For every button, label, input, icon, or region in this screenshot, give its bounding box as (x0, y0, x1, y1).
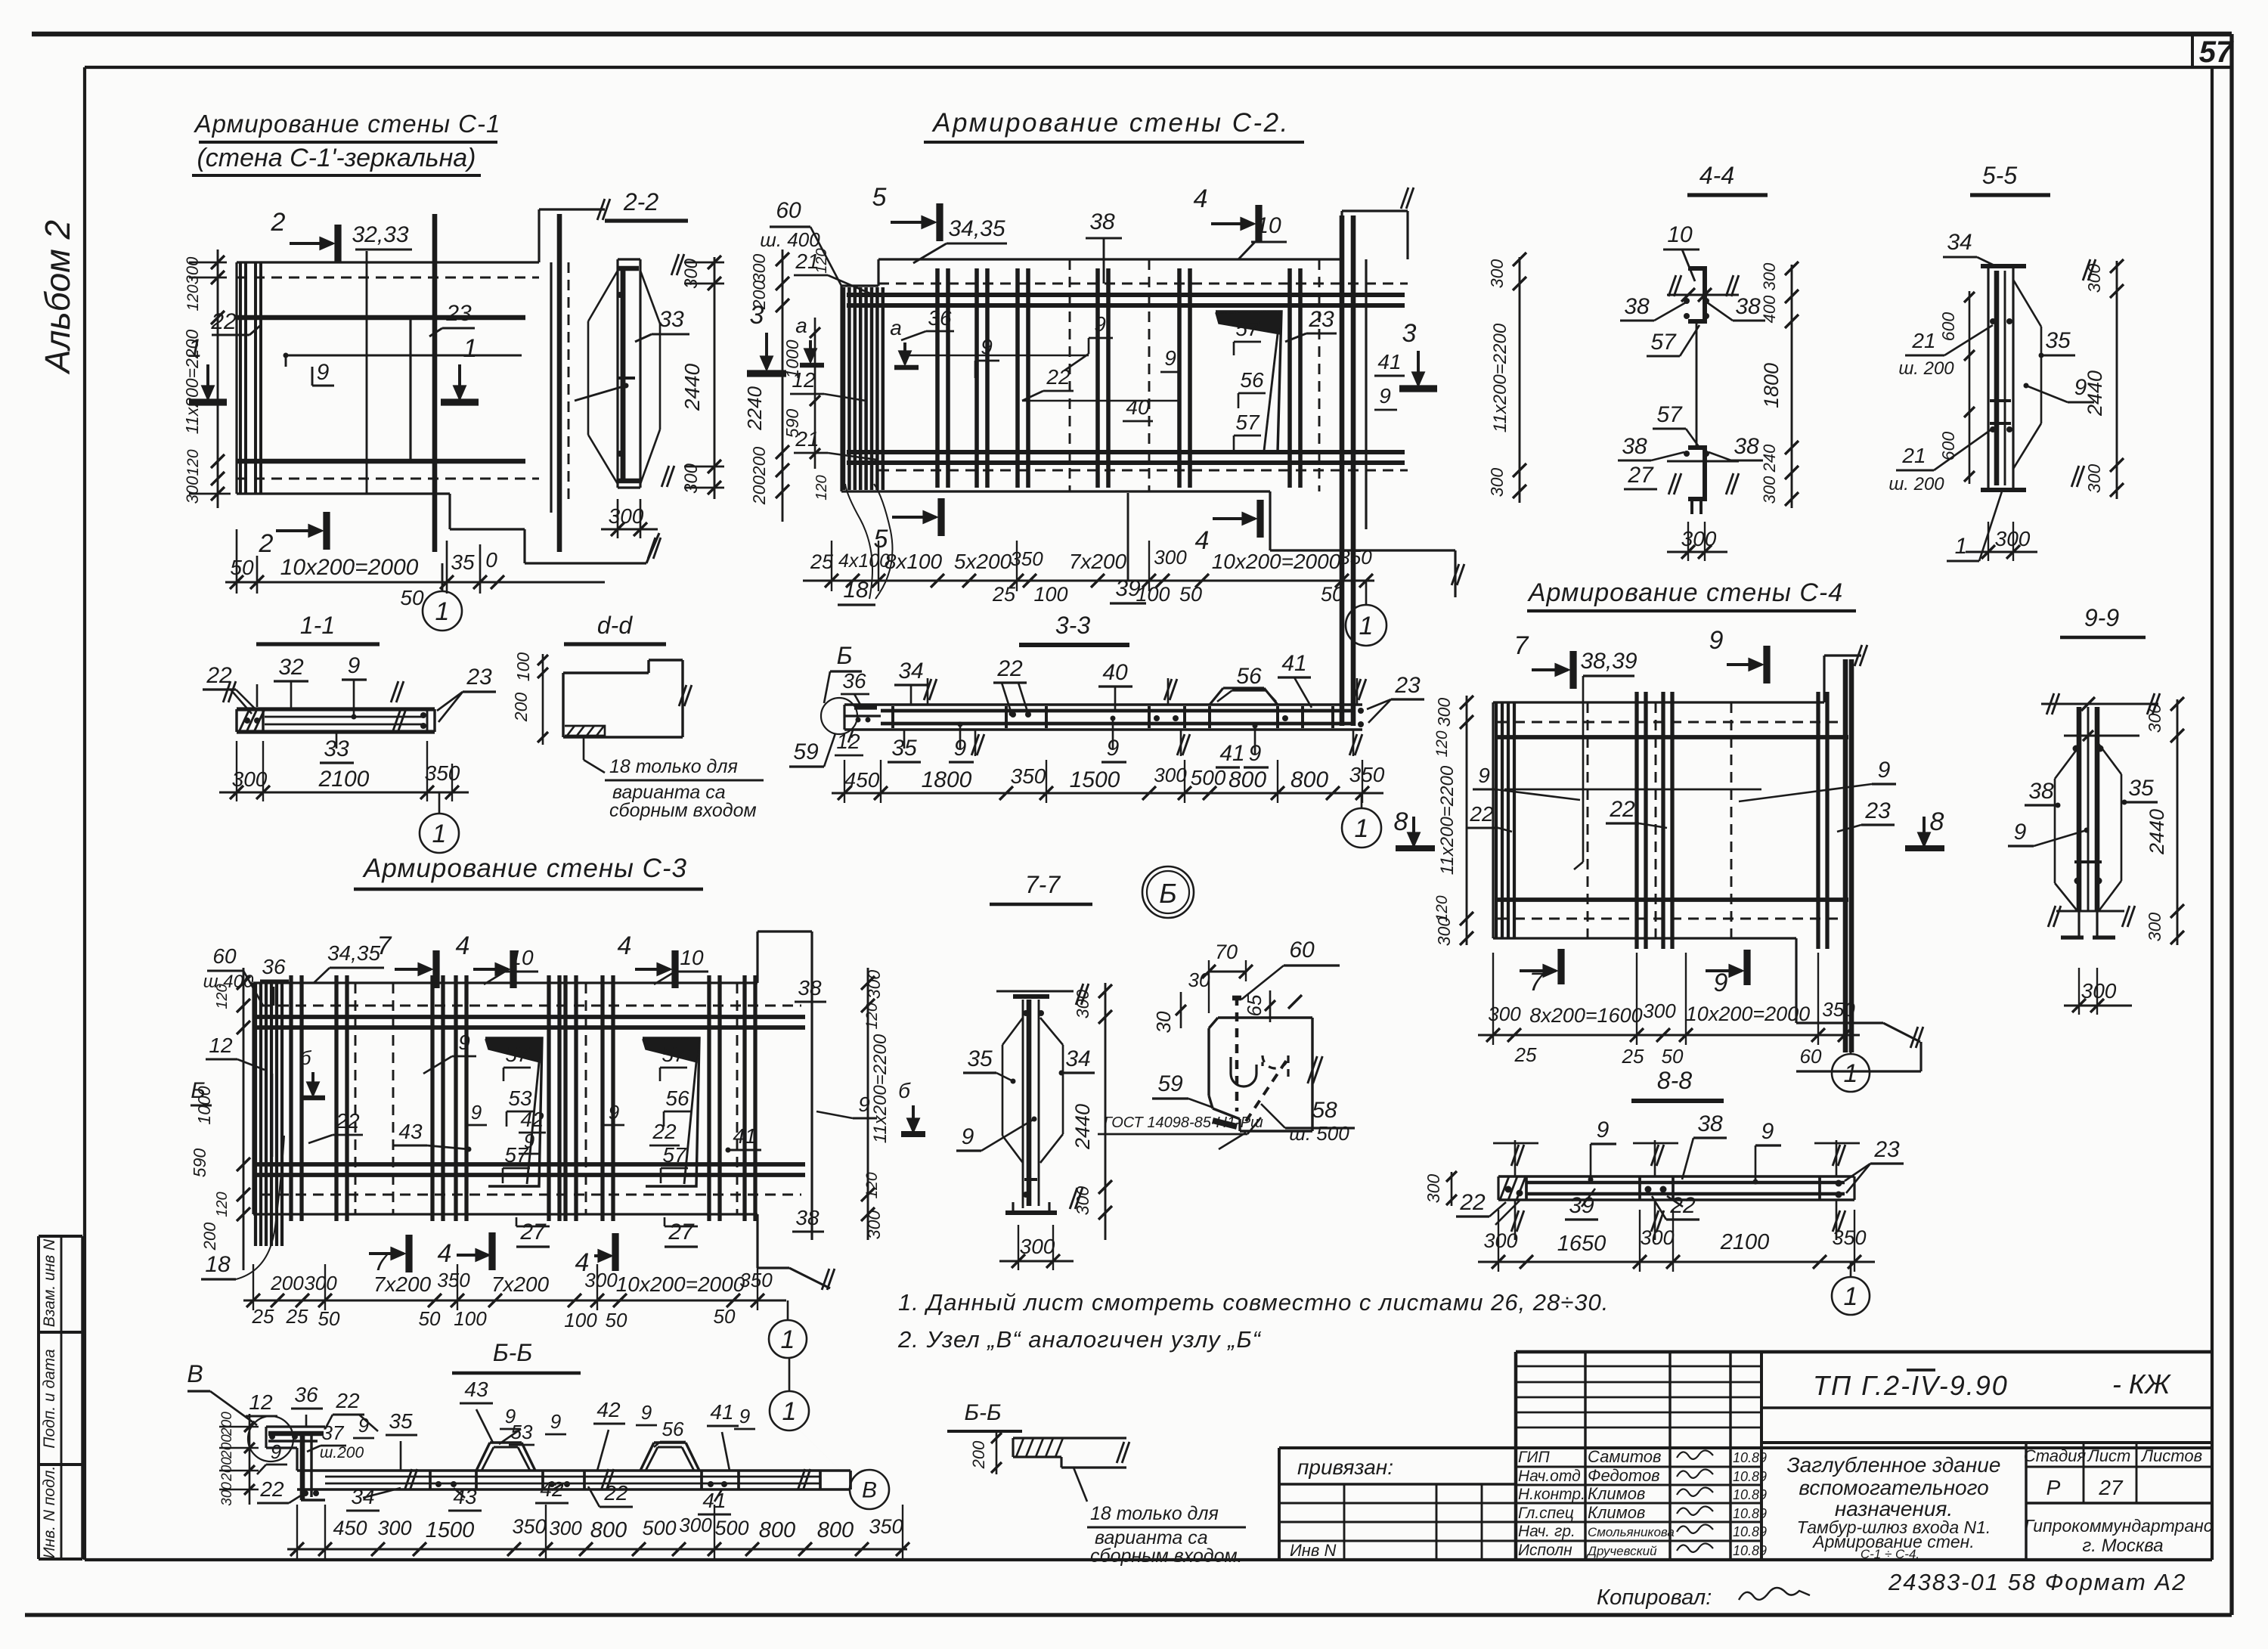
6-6 bottom dimension chain (287, 1548, 907, 1551)
svg-text:65: 65 (1243, 994, 1266, 1016)
svg-text:Н.контр.: Н.контр. (1518, 1486, 1585, 1503)
svg-text:100: 100 (454, 1307, 487, 1330)
wall C-4 right column bars (1843, 659, 1848, 1052)
svg-text:1-1: 1-1 (300, 612, 335, 639)
7-7 right dims (1105, 983, 1107, 1240)
svg-text:Лист: Лист (2087, 1446, 2131, 1465)
svg-text:41: 41 (1377, 350, 1401, 374)
svg-text:2: 2 (271, 208, 286, 237)
svg-text:25: 25 (810, 550, 834, 573)
svg-text:200: 200 (270, 1272, 304, 1294)
svg-text:30: 30 (1188, 969, 1210, 991)
svg-text:22: 22 (996, 656, 1023, 681)
svg-text:ш. 400: ш. 400 (760, 228, 820, 251)
svg-text:8: 8 (1394, 807, 1408, 836)
C-3 opening 2 with wedge (643, 1038, 699, 1186)
3-3 slab section (844, 703, 1362, 705)
svg-text:38,39: 38,39 (1580, 649, 1637, 674)
svg-text:300: 300 (864, 1210, 884, 1240)
svg-text:23: 23 (445, 301, 472, 326)
svg-text:Нач. гр.: Нач. гр. (1518, 1523, 1576, 1540)
svg-text:22: 22 (603, 1481, 628, 1505)
node V circle right (850, 1470, 889, 1509)
svg-text:9: 9 (471, 1101, 482, 1124)
svg-text:50: 50 (1321, 583, 1343, 606)
svg-text:42: 42 (520, 1108, 544, 1131)
node B hooks (1231, 1057, 1256, 1086)
inner frame bottom line (85, 1558, 2212, 1561)
svg-text:18 только для: 18 только для (1090, 1503, 1219, 1524)
d-d left dims 100 200 (542, 654, 544, 745)
axis circle 1 under 1-1 (438, 792, 441, 814)
svg-text:Заглубленное здание: Заглубленное здание (1787, 1453, 2001, 1477)
3-3 bent bar hat 56 (1210, 688, 1223, 705)
svg-text:3: 3 (1402, 319, 1417, 348)
svg-text:1650: 1650 (1557, 1232, 1606, 1256)
svg-text:10.89: 10.89 (1733, 1450, 1767, 1465)
svg-text:350: 350 (739, 1269, 773, 1291)
svg-text:300: 300 (1995, 527, 2031, 550)
svg-text:53: 53 (511, 1421, 533, 1443)
svg-text:12: 12 (209, 1034, 233, 1057)
svg-text:ш.200: ш.200 (320, 1444, 364, 1461)
svg-text:2440: 2440 (1071, 1104, 1094, 1150)
svg-text:2100: 2100 (1720, 1230, 1770, 1254)
8-8 top break ticks (1514, 1140, 1517, 1176)
svg-text:1. Данный лист смотреть совмес: 1. Данный лист смотреть совместно с лист… (898, 1289, 1609, 1316)
svg-text:27: 27 (668, 1220, 695, 1244)
svg-text:0: 0 (485, 548, 497, 572)
small B-B note text (1074, 1468, 1087, 1502)
8-8 slab section (1498, 1175, 1854, 1177)
svg-text:24383-01 58 Формат А2: 24383-01 58 Формат А2 (1888, 1569, 2186, 1595)
1-1 end break marks (393, 709, 401, 730)
svg-text:34: 34 (1065, 1046, 1090, 1071)
4-4 bottom dim 300 (1667, 551, 1727, 553)
outer right border line (2229, 34, 2233, 1615)
svg-text:10x200=2000: 10x200=2000 (616, 1272, 745, 1296)
3-3 stirrup dividers (891, 706, 894, 728)
svg-text:9: 9 (1709, 626, 1724, 655)
C-3 bottom dimension chain (243, 1300, 786, 1302)
svg-text:300: 300 (183, 476, 202, 504)
wall C-3 outline (253, 981, 758, 984)
svg-text:800: 800 (1228, 767, 1266, 792)
d-d note 18 tolko dlya (583, 737, 585, 760)
svg-text:100: 100 (1033, 583, 1067, 606)
title block outer box (1516, 1350, 2212, 1353)
svg-text:35: 35 (389, 1409, 413, 1433)
7-7 wall strip (996, 990, 1074, 993)
7-7 bottom dim 300 (999, 1260, 1074, 1263)
wall C-3 field vertical bars (289, 975, 293, 1221)
9-9 bottom base (2056, 910, 2124, 913)
wall C-2 field vertical bars (935, 268, 940, 488)
svg-text:5x200: 5x200 (954, 550, 1012, 573)
8-8 dimension chain (1478, 1261, 1875, 1263)
svg-text:25: 25 (252, 1305, 274, 1328)
svg-text:9-9: 9-9 (2084, 604, 2119, 631)
5-5 left dim 600 600 (1969, 291, 1971, 484)
svg-text:Климов: Климов (1588, 1503, 1645, 1522)
svg-text:18: 18 (205, 1252, 231, 1277)
1-1 dimension chain (219, 792, 469, 794)
node B dashed anchor bar (1235, 997, 1238, 1111)
svg-text:350: 350 (512, 1515, 546, 1538)
svg-text:7: 7 (377, 931, 392, 960)
svg-text:1: 1 (432, 820, 447, 848)
svg-text:43: 43 (398, 1120, 423, 1143)
svg-text:350: 350 (437, 1269, 470, 1291)
svg-text:38: 38 (1624, 294, 1650, 319)
svg-text:1: 1 (1844, 1059, 1858, 1088)
svg-text:350: 350 (1832, 1226, 1866, 1249)
svg-text:50: 50 (419, 1307, 441, 1330)
svg-text:Армирование стены С-1: Армирование стены С-1 (194, 110, 501, 138)
svg-text:21: 21 (1911, 329, 1935, 352)
svg-text:б: б (898, 1079, 911, 1102)
svg-text:ГИП: ГИП (1518, 1449, 1550, 1466)
node marker circle B (1142, 866, 1194, 918)
svg-text:С-1 ÷ С-4.: С-1 ÷ С-4. (1861, 1547, 1919, 1561)
2-2 vertical dimension 2440 (714, 257, 716, 499)
section 2-2 callout hexagon (588, 271, 618, 321)
svg-text:800: 800 (817, 1518, 854, 1542)
svg-text:100: 100 (564, 1309, 597, 1331)
svg-text:56: 56 (1240, 368, 1264, 392)
wall C-3 left dense vertical bars (254, 983, 257, 1246)
svg-text:41: 41 (1281, 651, 1306, 676)
svg-text:50: 50 (400, 586, 424, 609)
svg-text:1: 1 (1359, 612, 1374, 640)
svg-text:Б-Б: Б-Б (964, 1400, 1001, 1425)
svg-text:25: 25 (992, 583, 1016, 606)
svg-text:42: 42 (596, 1398, 621, 1421)
svg-text:41: 41 (710, 1400, 733, 1424)
svg-text:1500: 1500 (426, 1518, 475, 1542)
4-4 bottom column piece (1688, 448, 1705, 499)
svg-text:2. Узел „В“ аналогичен узлу „Б: 2. Узел „В“ аналогичен узлу „Б“ (897, 1326, 1262, 1353)
svg-text:120: 120 (863, 1172, 881, 1198)
wall C-4 horizontal bars (1495, 735, 1848, 739)
svg-text:300: 300 (549, 1517, 582, 1539)
svg-text:27: 27 (519, 1220, 547, 1244)
svg-text:2440: 2440 (2084, 370, 2106, 417)
svg-text:38: 38 (798, 976, 822, 1000)
svg-text:800: 800 (759, 1518, 795, 1542)
svg-text:50: 50 (318, 1307, 340, 1330)
svg-text:300: 300 (2145, 913, 2164, 942)
svg-text:9: 9 (1878, 758, 1891, 783)
svg-text:56: 56 (1236, 664, 1262, 689)
svg-text:Армирование стены С-3: Армирование стены С-3 (362, 854, 687, 883)
svg-text:7: 7 (1514, 631, 1529, 660)
svg-text:Дручевский: Дручевский (1586, 1544, 1657, 1558)
svg-text:59: 59 (1157, 1071, 1183, 1096)
C-3 right dim chain (867, 968, 869, 1240)
svg-text:34,35: 34,35 (327, 941, 380, 965)
svg-text:10.89: 10.89 (1733, 1506, 1767, 1521)
svg-text:34: 34 (898, 659, 923, 683)
svg-text:60: 60 (1289, 938, 1315, 962)
svg-text:9: 9 (2014, 820, 2027, 845)
privyazan annex table (1278, 1448, 1281, 1560)
svg-text:590: 590 (782, 409, 802, 439)
svg-text:41: 41 (1219, 741, 1244, 766)
svg-text:Нач.отд: Нач.отд (1518, 1468, 1581, 1485)
svg-text:22: 22 (1609, 797, 1635, 822)
inner frame left line (83, 67, 86, 1560)
svg-text:57: 57 (661, 1043, 686, 1066)
svg-text:38: 38 (795, 1206, 820, 1229)
svg-text:В: В (862, 1478, 877, 1503)
svg-text:57: 57 (662, 1143, 687, 1167)
svg-text:38: 38 (1089, 209, 1115, 234)
wall C-4 left vertical bars (1495, 702, 1498, 938)
svg-text:350: 350 (1010, 547, 1043, 570)
svg-text:120: 120 (184, 449, 202, 476)
svg-text:9: 9 (317, 360, 330, 385)
wall C-1 dashed distribution lines (237, 277, 539, 279)
svg-text:Самитов: Самитов (1588, 1447, 1662, 1466)
C-4 bottom dimension chain (1478, 1034, 1860, 1037)
svg-text:38: 38 (1622, 434, 1647, 459)
svg-text:590: 590 (190, 1148, 209, 1178)
svg-text:4: 4 (1195, 526, 1210, 555)
section 2-2 wall strip (618, 258, 640, 260)
svg-text:8x200=1600: 8x200=1600 (1529, 1004, 1642, 1027)
wall C-2 outline (878, 258, 1342, 260)
svg-text:1: 1 (782, 1397, 797, 1426)
svg-text:10.89: 10.89 (1733, 1487, 1767, 1502)
axis circle 1 under 3-3 right (1361, 793, 1363, 807)
svg-text:23: 23 (1394, 673, 1421, 698)
wall C-2 right column bars (1340, 215, 1345, 726)
svg-text:57: 57 (1650, 330, 1677, 355)
svg-text:37: 37 (322, 1421, 345, 1444)
svg-text:100: 100 (1136, 583, 1170, 606)
svg-text:34,35: 34,35 (948, 216, 1005, 241)
svg-text:Взам. инв N: Взам. инв N (41, 1238, 58, 1327)
svg-text:23: 23 (466, 665, 492, 690)
6-6 node V big circle (248, 1416, 293, 1461)
svg-text:11x200=2200: 11x200=2200 (182, 330, 202, 435)
svg-text:40: 40 (1126, 395, 1150, 419)
svg-text:300: 300 (2081, 979, 2117, 1003)
C-3 left dim chains (243, 968, 245, 1270)
svg-text:9: 9 (1094, 312, 1106, 336)
svg-text:800: 800 (590, 1518, 627, 1542)
6-6 break marks (404, 1469, 412, 1490)
svg-text:Б: Б (1159, 878, 1176, 909)
svg-text:8-8: 8-8 (1657, 1067, 1692, 1094)
svg-text:8x100: 8x100 (885, 550, 943, 573)
axis circle 1 under C-4 (1850, 1035, 1852, 1054)
svg-text:200: 200 (749, 476, 769, 506)
svg-text:38: 38 (2028, 779, 2054, 804)
svg-text:ш. 200: ш. 200 (1898, 358, 1954, 379)
svg-text:9: 9 (739, 1405, 750, 1427)
svg-text:Инв. N подл.: Инв. N подл. (41, 1466, 58, 1559)
svg-text:23: 23 (1864, 798, 1891, 823)
svg-text:350: 350 (425, 761, 460, 785)
C-2 bottom dimension chain (803, 580, 1374, 582)
svg-text:4: 4 (1194, 184, 1208, 213)
svg-text:7x200: 7x200 (1069, 550, 1127, 573)
wall C-1 vertical bar 32,33 (366, 251, 368, 494)
6-6 left rotated dims (249, 1414, 251, 1505)
svg-text:а: а (890, 316, 902, 339)
svg-text:1: 1 (1955, 534, 1968, 559)
title block upper thin rows (1516, 1365, 1761, 1368)
svg-text:ТП Г.2-IV-9.90: ТП Г.2-IV-9.90 (1813, 1370, 2009, 1401)
svg-text:300: 300 (584, 1269, 618, 1291)
svg-text:300: 300 (1434, 698, 1454, 727)
svg-text:300: 300 (1434, 917, 1454, 947)
svg-text:57: 57 (1235, 317, 1260, 340)
svg-text:9: 9 (1379, 384, 1391, 408)
svg-text:300: 300 (219, 1482, 235, 1506)
svg-text:10x200=2000: 10x200=2000 (280, 555, 419, 580)
wall C-3 horizontal bars (257, 1015, 805, 1019)
svg-text:2100: 2100 (318, 767, 370, 792)
svg-text:500: 500 (1191, 766, 1226, 789)
svg-text:38: 38 (1697, 1111, 1723, 1136)
svg-text:57: 57 (1656, 402, 1683, 427)
svg-text:сборным входом.: сборным входом. (1090, 1545, 1243, 1567)
svg-text:450: 450 (333, 1517, 367, 1539)
svg-text:9: 9 (271, 1440, 281, 1463)
svg-text:Гл.спец: Гл.спец (1518, 1505, 1574, 1522)
svg-text:10.89: 10.89 (1733, 1524, 1767, 1539)
C-2 left dim chains (782, 250, 784, 522)
svg-text:500: 500 (642, 1517, 676, 1539)
svg-text:3-3: 3-3 (1055, 612, 1090, 639)
svg-text:40: 40 (1102, 660, 1128, 685)
svg-text:21: 21 (1901, 444, 1926, 467)
svg-text:53: 53 (508, 1086, 532, 1110)
svg-text:9: 9 (1761, 1119, 1774, 1144)
svg-text:36: 36 (262, 955, 286, 978)
C-2 right dim chain (1519, 257, 1521, 503)
5-5 right dimension 2440 (2116, 261, 2118, 499)
svg-text:300: 300 (681, 463, 702, 494)
outer bottom border line (25, 1613, 2232, 1616)
svg-text:9: 9 (1597, 1117, 1610, 1142)
svg-text:27: 27 (2098, 1476, 2124, 1499)
svg-text:200: 200 (219, 1434, 235, 1459)
svg-text:Исполн: Исполн (1518, 1542, 1572, 1559)
svg-text:22: 22 (335, 1389, 360, 1412)
svg-text:вспомогательного: вспомогательного (1799, 1476, 1988, 1499)
C-3 opening 1 with wedge (485, 1038, 542, 1186)
wall C-4 field vertical bars (1634, 692, 1638, 949)
small B-B step shape (1013, 1437, 1126, 1439)
svg-text:38: 38 (1734, 434, 1759, 459)
svg-text:Смольяникова: Смольяникова (1588, 1525, 1675, 1539)
5-5 callout hexagon right (2013, 280, 2041, 327)
svg-text:Стадия: Стадия (2024, 1446, 2087, 1465)
svg-text:350: 350 (1349, 763, 1385, 786)
svg-text:300: 300 (1681, 527, 1717, 550)
svg-text:5: 5 (872, 183, 887, 212)
svg-text:2-2: 2-2 (623, 188, 658, 215)
svg-text:60: 60 (1800, 1045, 1822, 1068)
svg-text:36: 36 (928, 306, 952, 330)
svg-text:800: 800 (1290, 767, 1328, 792)
C-4 left dim chain (1466, 696, 1468, 945)
svg-text:ш. 200: ш. 200 (1888, 474, 1944, 494)
TP document number cell (1761, 1406, 2212, 1409)
wall C-1 outline (237, 261, 539, 263)
svg-text:120: 120 (863, 1003, 881, 1029)
svg-text:300: 300 (2145, 704, 2164, 733)
axis circles right of 6-6 (770, 1391, 809, 1430)
svg-text:120: 120 (1433, 730, 1451, 757)
svg-text:4: 4 (618, 931, 632, 960)
svg-text:300: 300 (304, 1272, 337, 1294)
1-1 left corner hatch (239, 709, 249, 732)
small B-B dim 200 (996, 1432, 998, 1474)
node B dims 70 30 30 65 (1209, 971, 1246, 973)
svg-text:300: 300 (1487, 468, 1507, 497)
2-2 bottom dimension 300 (601, 528, 658, 531)
svg-text:d-d: d-d (597, 612, 633, 639)
svg-text:200: 200 (219, 1412, 235, 1437)
staff signature rows (1516, 1466, 1761, 1468)
3-3 node B callout circle (821, 698, 857, 734)
svg-text:36: 36 (842, 669, 866, 693)
6-6 stirrup boxes (429, 1471, 432, 1489)
svg-text:Листов: Листов (2140, 1446, 2202, 1465)
svg-text:10: 10 (1256, 213, 1281, 238)
svg-text:120: 120 (184, 284, 202, 311)
svg-text:9: 9 (962, 1124, 974, 1149)
svg-text:22: 22 (1459, 1190, 1486, 1215)
svg-text:Б: Б (837, 642, 853, 669)
wall C-1 horizontal bars (237, 315, 525, 321)
svg-text:б: б (300, 1046, 312, 1069)
svg-text:1: 1 (781, 1325, 795, 1354)
wall C-2 dashed lines (878, 283, 1408, 285)
svg-text:2240: 2240 (743, 386, 766, 431)
svg-text:9: 9 (1478, 764, 1490, 787)
5-5 bottom dim 300 (1966, 551, 2037, 553)
svg-text:50: 50 (714, 1305, 736, 1328)
svg-text:привязан:: привязан: (1297, 1455, 1393, 1479)
svg-text:35: 35 (2045, 328, 2071, 353)
axis circle 1 under C-2 (1365, 581, 1368, 605)
8-8 left corner hatch (1500, 1176, 1509, 1200)
svg-text:25: 25 (286, 1305, 308, 1328)
svg-text:9: 9 (358, 1414, 369, 1437)
svg-text:43: 43 (464, 1378, 488, 1401)
svg-text:57: 57 (1235, 411, 1260, 434)
svg-text:300: 300 (2084, 464, 2104, 494)
svg-text:1: 1 (1355, 814, 1369, 843)
svg-text:1000: 1000 (782, 339, 802, 378)
svg-text:25: 25 (1514, 1043, 1537, 1066)
svg-text:Копировал:: Копировал: (1597, 1585, 1712, 1610)
svg-text:34: 34 (1947, 230, 1972, 255)
1-1 slab section (237, 707, 435, 711)
svg-text:11x200=2200: 11x200=2200 (1490, 323, 1510, 432)
svg-text:2440: 2440 (2146, 809, 2168, 855)
svg-text:10: 10 (1667, 222, 1693, 247)
svg-text:38: 38 (1735, 294, 1761, 319)
svg-text:50: 50 (1179, 583, 1202, 606)
svg-text:22: 22 (259, 1477, 284, 1501)
